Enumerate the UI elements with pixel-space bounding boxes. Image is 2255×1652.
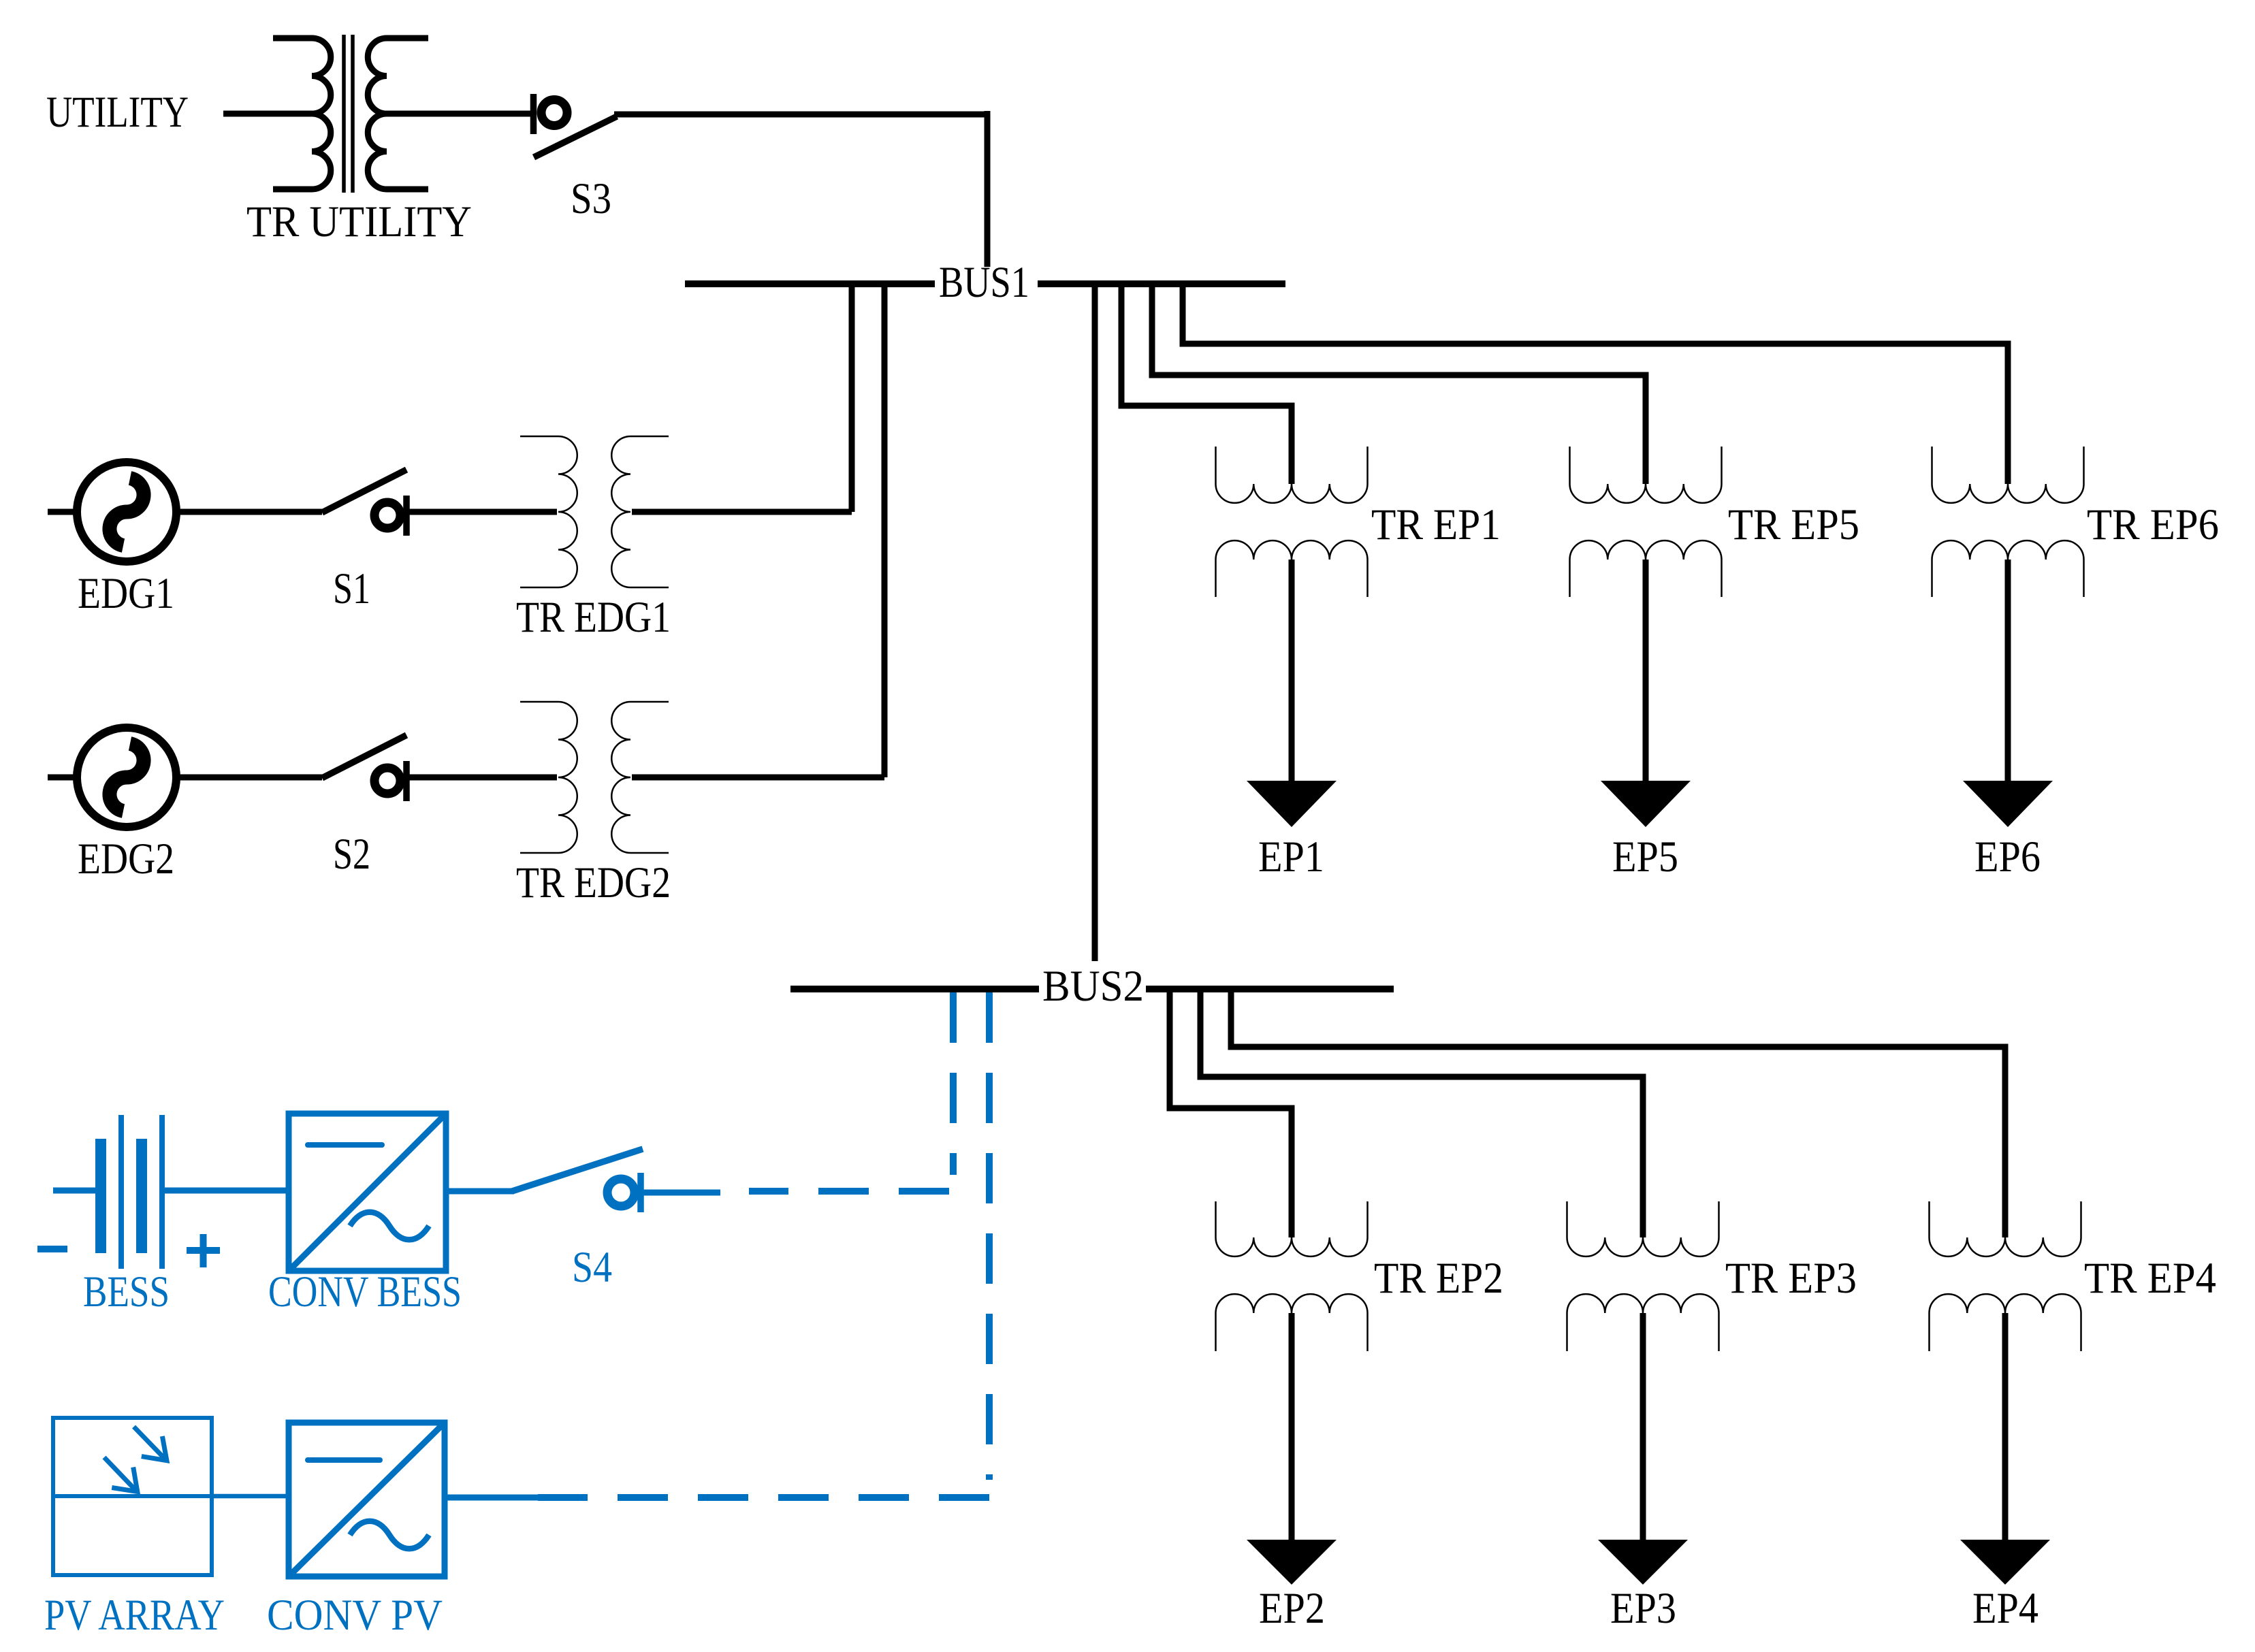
- svg-text:EP4: EP4: [1972, 1584, 2038, 1633]
- svg-text:CONV PV: CONV PV: [267, 1591, 443, 1640]
- svg-text:UTILITY: UTILITY: [46, 88, 189, 137]
- svg-text:S3: S3: [571, 174, 611, 223]
- svg-text:EDG2: EDG2: [78, 835, 174, 884]
- svg-text:BUS1: BUS1: [939, 258, 1029, 307]
- svg-text:TR UTILITY: TR UTILITY: [246, 197, 472, 246]
- svg-text:PV ARRAY: PV ARRAY: [44, 1591, 225, 1640]
- svg-text:BESS: BESS: [83, 1267, 170, 1316]
- svg-text:EP2: EP2: [1259, 1584, 1325, 1633]
- svg-text:TR EDG1: TR EDG1: [516, 593, 671, 642]
- svg-text:EP6: EP6: [1974, 832, 2041, 881]
- svg-text:S2: S2: [333, 830, 370, 879]
- svg-text:CONV BESS: CONV BESS: [268, 1267, 462, 1316]
- svg-text:TR EP5: TR EP5: [1728, 500, 1859, 549]
- svg-text:S1: S1: [333, 564, 370, 613]
- svg-text:TR EP1: TR EP1: [1371, 500, 1501, 549]
- svg-text:TR EP6: TR EP6: [2087, 500, 2219, 549]
- svg-text:TR EP2: TR EP2: [1374, 1254, 1503, 1303]
- svg-text:TR EDG2: TR EDG2: [516, 858, 671, 907]
- svg-text:TR EP4: TR EP4: [2084, 1254, 2216, 1303]
- svg-text:TR EP3: TR EP3: [1725, 1254, 1857, 1303]
- svg-text:EDG1: EDG1: [78, 569, 174, 618]
- svg-text:EP5: EP5: [1612, 832, 1678, 881]
- svg-text:BUS2: BUS2: [1042, 962, 1144, 1011]
- svg-text:S4: S4: [572, 1243, 612, 1292]
- svg-text:EP1: EP1: [1258, 832, 1324, 881]
- svg-text:EP3: EP3: [1610, 1584, 1676, 1633]
